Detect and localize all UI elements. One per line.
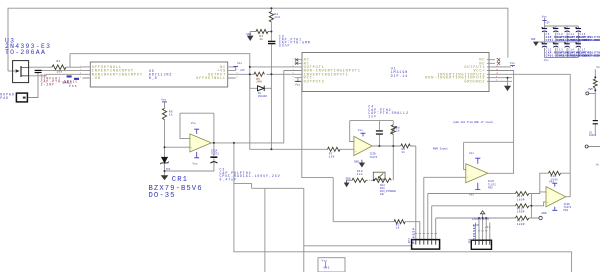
svg-text:33nF: 33nF bbox=[279, 43, 291, 47]
svg-text:JP1: JP1 bbox=[408, 238, 411, 244]
svg-text:GND: GND bbox=[542, 212, 547, 215]
svg-text:1k: 1k bbox=[401, 150, 405, 154]
svg-text:3: 3 bbox=[293, 65, 294, 67]
svg-text:M06SIP: M06SIP bbox=[413, 227, 416, 243]
svg-text:13: 13 bbox=[496, 62, 498, 64]
svg-text:180R: 180R bbox=[517, 223, 525, 226]
svg-text:Vss: Vss bbox=[469, 152, 474, 155]
svg-text:TL072: TL072 bbox=[369, 156, 377, 159]
svg-text:Vss: Vss bbox=[510, 62, 515, 65]
svg-text:PWM Input: PWM Input bbox=[433, 147, 448, 150]
svg-text:3: 3 bbox=[80, 73, 81, 75]
svg-text:10: 10 bbox=[496, 73, 498, 75]
svg-text:2: 2 bbox=[293, 62, 294, 64]
svg-text:8: 8 bbox=[496, 80, 497, 82]
svg-text:Vss: Vss bbox=[358, 129, 363, 132]
svg-text:GND: GND bbox=[324, 267, 330, 270]
svg-text:TL072: TL072 bbox=[211, 153, 219, 156]
svg-text:Vss: Vss bbox=[322, 259, 328, 262]
svg-text:7: 7 bbox=[293, 80, 294, 82]
svg-text:P$3: P$3 bbox=[488, 185, 493, 189]
svg-text:2: 2 bbox=[80, 69, 81, 71]
svg-text:PWM: PWM bbox=[588, 88, 593, 91]
svg-text:CPOL-RADIAL: CPOL-RADIAL bbox=[580, 54, 600, 57]
svg-text:PAD: PAD bbox=[0, 96, 9, 100]
svg-text:GND: GND bbox=[531, 38, 536, 41]
svg-text:5: 5 bbox=[237, 76, 238, 78]
svg-text:GND: GND bbox=[346, 178, 351, 181]
svg-text:4: 4 bbox=[80, 76, 81, 78]
svg-text:Vss: Vss bbox=[544, 59, 549, 62]
svg-text:+5V: +5V bbox=[240, 69, 245, 72]
svg-text:(add 1k0 from BNC if used): (add 1k0 from BNC if used) bbox=[453, 120, 494, 124]
svg-text:GND: GND bbox=[483, 218, 489, 221]
svg-text:CR1: CR1 bbox=[172, 176, 188, 184]
svg-text:JP2: JP2 bbox=[468, 238, 471, 244]
svg-text:R3: R3 bbox=[57, 60, 61, 63]
svg-text:Vss: Vss bbox=[69, 84, 78, 88]
svg-text:14: 14 bbox=[496, 58, 498, 60]
svg-text:1nF: 1nF bbox=[368, 115, 377, 119]
svg-text:GROUND2: GROUND2 bbox=[464, 80, 485, 84]
svg-text:GND: GND bbox=[246, 33, 251, 36]
svg-text:1: 1 bbox=[80, 65, 81, 67]
svg-text:Vss: Vss bbox=[549, 180, 554, 183]
svg-text:7: 7 bbox=[237, 69, 238, 71]
svg-text:Vss: Vss bbox=[161, 99, 166, 102]
svg-text:CPOL-RADIAL: CPOL-RADIAL bbox=[580, 39, 600, 42]
svg-text:Vss: Vss bbox=[596, 66, 600, 69]
svg-text:Vss: Vss bbox=[295, 83, 300, 86]
svg-text:2k: 2k bbox=[396, 128, 400, 132]
svg-text:Vss: Vss bbox=[542, 15, 547, 18]
svg-text:Vss: Vss bbox=[237, 62, 242, 65]
svg-text:180R: 180R bbox=[517, 198, 525, 201]
svg-text:DIP-14: DIP-14 bbox=[391, 75, 409, 79]
svg-text:5V6: 5V6 bbox=[166, 168, 171, 171]
svg-text:100nF: 100nF bbox=[589, 134, 597, 137]
svg-text:10k: 10k bbox=[329, 154, 335, 158]
svg-text:10k: 10k bbox=[57, 70, 63, 74]
svg-text:1k: 1k bbox=[259, 37, 263, 41]
svg-text:5: 5 bbox=[293, 73, 294, 75]
svg-text:-VS: -VS bbox=[92, 77, 101, 81]
svg-text:12: 12 bbox=[496, 65, 498, 67]
svg-text:1k: 1k bbox=[396, 226, 400, 230]
svg-text:8: 8 bbox=[237, 65, 238, 67]
svg-text:1: 1 bbox=[293, 58, 294, 60]
svg-text:TO-206AA: TO-206AA bbox=[5, 49, 46, 56]
svg-text:OUTPUT2: OUTPUT2 bbox=[304, 80, 325, 84]
svg-text:OFFSETNULL: OFFSETNULL bbox=[196, 77, 226, 81]
svg-text:P$4: P$4 bbox=[564, 208, 569, 212]
svg-text:1k0: 1k0 bbox=[274, 15, 280, 19]
svg-text:N_8: N_8 bbox=[149, 77, 158, 81]
svg-text:6: 6 bbox=[293, 76, 294, 78]
svg-text:1N4148: 1N4148 bbox=[258, 94, 268, 98]
svg-text:0.47uF: 0.47uF bbox=[220, 178, 237, 182]
svg-text:Vss: Vss bbox=[193, 163, 198, 166]
svg-text:+5V: +5V bbox=[485, 226, 491, 229]
svg-text:Vss: Vss bbox=[469, 194, 474, 197]
svg-text:1k2: 1k2 bbox=[357, 172, 363, 176]
svg-text:GND: GND bbox=[354, 160, 359, 163]
svg-text:2-2NF: 2-2NF bbox=[41, 82, 56, 86]
svg-text:+5V: +5V bbox=[545, 22, 550, 25]
svg-text:1k: 1k bbox=[169, 112, 173, 116]
svg-text:180R: 180R bbox=[517, 211, 525, 214]
svg-text:10k: 10k bbox=[380, 192, 385, 196]
svg-text:4: 4 bbox=[293, 69, 294, 71]
svg-text:Vss: Vss bbox=[191, 122, 196, 125]
svg-text:GND: GND bbox=[473, 224, 479, 227]
svg-text:11: 11 bbox=[496, 69, 498, 71]
svg-text:9: 9 bbox=[496, 76, 497, 78]
svg-text:DO-35: DO-35 bbox=[149, 192, 176, 200]
svg-text:6: 6 bbox=[237, 73, 238, 75]
svg-text:1M0: 1M0 bbox=[256, 81, 262, 84]
